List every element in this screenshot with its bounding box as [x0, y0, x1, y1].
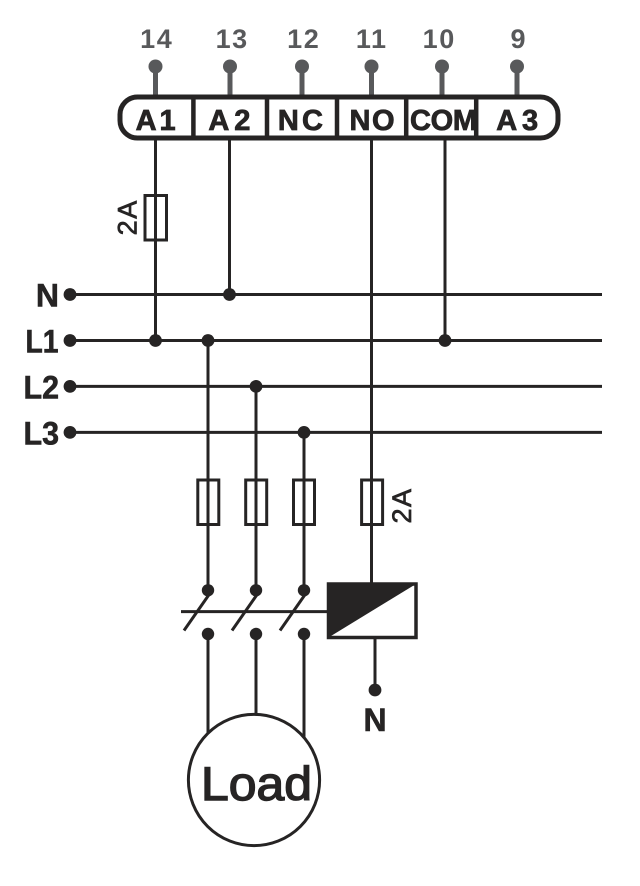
wire N bus — [70, 293, 602, 296]
contact 2 bottom dot — [250, 628, 262, 640]
fuse F3 — [246, 480, 267, 525]
svg-text:9: 9 — [510, 24, 525, 54]
svg-text:Load: Load — [201, 757, 312, 810]
contact 3 blade — [280, 593, 307, 631]
junction L2 pole2 — [250, 380, 263, 393]
wire contact 1 to load — [207, 634, 210, 745]
wire L1 to contact 1 — [207, 341, 210, 591]
pin stub 9 — [510, 60, 524, 96]
divider A2/NC — [265, 97, 270, 138]
pin stub 11 — [365, 60, 379, 96]
load M1 — [188, 714, 319, 845]
pin stub 14 — [149, 60, 163, 96]
contact 3 bottom dot — [298, 628, 310, 640]
svg-text:L2: L2 — [24, 369, 60, 405]
divider NC/NO — [335, 97, 340, 138]
svg-text:NO: NO — [350, 105, 395, 137]
svg-text:A1: A1 — [136, 105, 176, 137]
wire L3 to contact 3 — [303, 432, 306, 590]
fuse F2 — [198, 480, 219, 525]
contact 1 bottom dot — [202, 628, 214, 640]
wire L3 bus — [70, 431, 602, 434]
svg-text:14: 14 — [140, 24, 173, 54]
node L2 terminal dot — [64, 380, 77, 393]
svg-text:13: 13 — [216, 24, 249, 54]
wire A1 to L1 — [154, 140, 157, 341]
wire COM to L1 — [444, 140, 447, 341]
svg-text:L3: L3 — [24, 415, 60, 451]
svg-text:10: 10 — [423, 24, 456, 54]
wire contact 2 to load — [255, 634, 258, 745]
terminal block outline — [120, 97, 558, 138]
svg-text:N: N — [36, 278, 59, 314]
wire contact 3 to load — [303, 634, 306, 745]
relay coil K1 — [329, 584, 417, 638]
wire L2 bus — [70, 385, 602, 388]
wire NO to relay coil — [370, 140, 373, 583]
wire L2 to contact 2 — [255, 386, 258, 590]
svg-text:N: N — [363, 702, 386, 738]
svg-text:L1: L1 — [26, 324, 59, 360]
fuse F5 — [362, 480, 383, 525]
junction L1 pole1 — [202, 334, 215, 347]
divider NO/COM — [404, 97, 409, 138]
node L1 terminal dot — [64, 334, 77, 347]
wire L1 bus — [70, 339, 602, 342]
divider COM/A3 — [474, 97, 479, 138]
contact 3 top dot — [298, 584, 310, 596]
contact 2 top dot — [250, 584, 262, 596]
pin stub 10 — [435, 60, 449, 96]
wire A2 to N — [228, 140, 231, 295]
contact 2 blade — [232, 593, 259, 631]
svg-text:COM: COM — [410, 105, 477, 137]
contact 1 blade — [184, 593, 211, 631]
pin stub 12 — [295, 60, 309, 96]
svg-text:2A: 2A — [387, 487, 417, 523]
svg-text:2A: 2A — [113, 199, 143, 235]
contact 1 top dot — [202, 584, 214, 596]
fuse F1 — [145, 196, 167, 241]
fuse F4 — [294, 480, 315, 525]
junction A1/L1 — [149, 334, 162, 347]
pin stub 13 — [223, 60, 237, 96]
divider A1/A2 — [191, 97, 196, 138]
junction L3 pole3 — [298, 426, 311, 439]
mechanical linkage — [181, 610, 327, 613]
node N bottom dot — [369, 684, 382, 697]
svg-text:12: 12 — [287, 24, 320, 54]
wire coil to N — [374, 639, 377, 690]
junction A2/N — [223, 288, 236, 301]
node N terminal dot — [64, 288, 77, 301]
node L3 terminal dot — [64, 426, 77, 439]
junction COM/L1 — [439, 334, 452, 347]
svg-text:11: 11 — [356, 24, 388, 54]
